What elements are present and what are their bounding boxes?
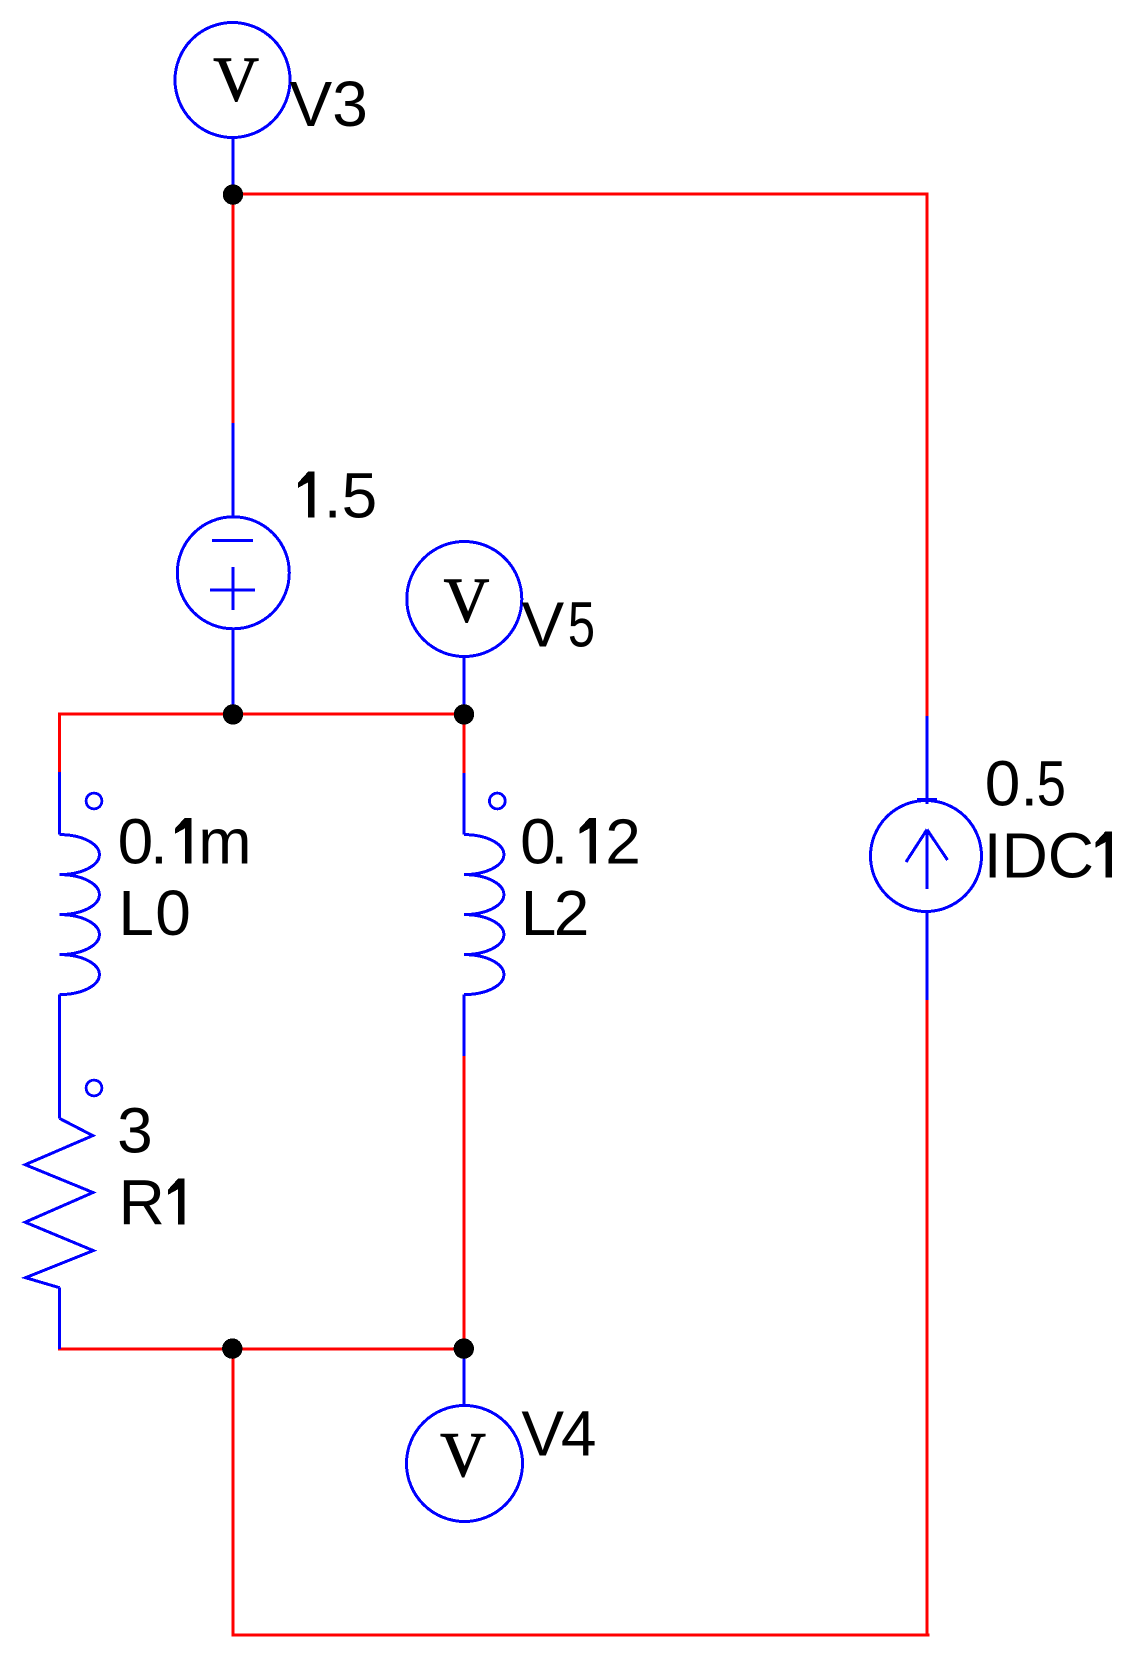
svg-text:V: V xyxy=(522,588,565,660)
svg-text:.: . xyxy=(150,806,168,878)
svg-text:L: L xyxy=(118,877,154,949)
svg-text:V: V xyxy=(213,45,259,115)
svg-text:V3: V3 xyxy=(290,68,368,140)
svg-text:0: 0 xyxy=(155,877,191,949)
svg-text:IDC: IDC xyxy=(984,819,1094,891)
svg-text:V: V xyxy=(440,1420,486,1490)
svg-text:5: 5 xyxy=(1037,747,1066,819)
svg-text:L: L xyxy=(521,877,557,949)
svg-text:3: 3 xyxy=(117,1095,153,1167)
svg-text:.: . xyxy=(550,806,568,878)
svg-text:5: 5 xyxy=(568,588,595,660)
svg-text:R: R xyxy=(119,1166,165,1238)
svg-text:2: 2 xyxy=(605,806,641,878)
svg-text:2: 2 xyxy=(554,877,590,949)
svg-text:0: 0 xyxy=(118,806,154,878)
svg-text:V: V xyxy=(444,565,490,635)
svg-text:0.: 0. xyxy=(985,747,1038,819)
svg-text:V: V xyxy=(521,1398,564,1470)
svg-text:.5: .5 xyxy=(324,460,377,532)
svg-text:4: 4 xyxy=(561,1398,597,1470)
svg-text:m: m xyxy=(198,806,251,878)
